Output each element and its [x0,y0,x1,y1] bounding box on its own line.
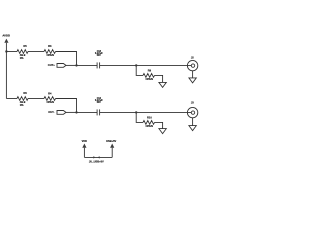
capacitor C13 [95,51,103,69]
svg-text:R6: R6 [23,91,27,95]
svg-text:OPEN: OPEN [47,100,54,104]
wire R4 to corner, down to node [56,99,77,113]
wire rail corner to R6 [6,98,17,100]
svg-text:50V: 50V [97,102,102,104]
wire node to C13 [77,64,98,66]
svg-text:OPEN: OPEN [146,77,153,81]
svg-text:J3: J3 [191,100,194,104]
jumper JU_USB+5V [89,156,104,163]
port OUT- [48,110,76,114]
power USB+5V [106,139,116,158]
wire R9 to ground [155,75,163,82]
port OUT+ [48,63,77,67]
wire node to C14 [77,111,98,113]
ground for J3 [189,126,196,131]
svg-text:R10: R10 [147,115,152,119]
resistor R6 [17,91,28,107]
wire rail to R5 [6,51,17,53]
svg-text:R9: R9 [148,68,152,72]
capacitor C14 [95,97,103,116]
node OUT+ junction [75,64,77,66]
connector J2 [187,55,197,70]
power VDD [82,140,87,158]
svg-text:50V: 50V [97,55,102,57]
node AVDD junction [5,50,7,52]
svg-text:OUT+: OUT+ [48,63,55,67]
ground for R9 [159,82,166,87]
node OUT- junction [75,111,77,113]
resistor R4 [44,91,56,104]
svg-text:R3: R3 [48,44,52,48]
wire R3 to corner, down to node [56,52,77,66]
resistor R3 [44,44,56,57]
wire VDD to USB+5V [84,156,112,158]
svg-text:J2: J2 [191,55,194,59]
wire junction down to R9 [136,65,143,75]
svg-text:JU_USB+5V: JU_USB+5V [89,159,104,163]
wire AVDD rail vertical [5,52,7,99]
svg-text:OUT-: OUT- [48,110,54,114]
wire J3 to ground [192,118,194,126]
connector J3 [187,100,197,118]
power AVDD [2,34,10,52]
svg-text:VDD: VDD [82,140,87,143]
svg-text:OPEN: OPEN [47,53,54,57]
svg-text:USB+5V: USB+5V [106,139,116,143]
wire R5 to R3 [28,51,44,53]
resistor R5 [17,44,28,60]
wire junction down to R10 [136,112,143,122]
wire J2 to ground [192,71,194,78]
wire C14 to jack J3 [100,111,188,113]
ground for J2 [189,78,196,83]
svg-text:AVDD: AVDD [2,34,10,38]
svg-text:R4: R4 [48,91,52,95]
svg-text:R5: R5 [23,44,27,48]
wire R6 to R4 [28,98,44,100]
resistor R9 [143,68,155,81]
svg-text:OPEN: OPEN [146,124,153,128]
wire C13 to jack J2 [100,64,188,66]
node R9 tap junction [135,64,137,66]
wire R10 to ground [155,122,163,128]
node R10 tap junction [135,111,137,113]
resistor R10 [143,115,155,128]
ground for R10 [159,129,166,134]
